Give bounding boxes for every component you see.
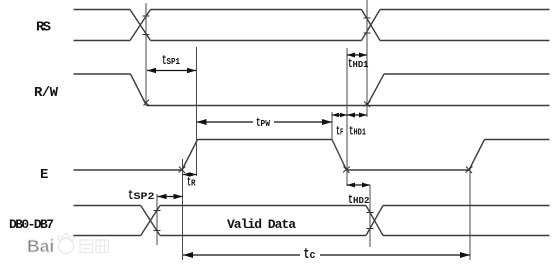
tSP1 arrow [147, 70, 196, 72]
svg-text:tHD1: tHD1 [348, 56, 369, 71]
reference line V1 at RS crossover1 / RW fall [145, 3, 147, 104]
tick DB X1 lower [154, 230, 161, 232]
reference line V6 at E fall end [346, 48, 348, 186]
RS crossover X1 [130, 10, 151, 41]
tPW arrow right part [274, 121, 332, 123]
tF arrow [332, 114, 347, 116]
svg-text:E: E [40, 167, 48, 183]
reference line V5 at E fall start [331, 112, 333, 140]
tHD2 arrow [347, 184, 370, 186]
RS bus high rail right [380, 9, 550, 11]
tick RS X2 lower [364, 32, 371, 34]
E high rail 1 [198, 139, 333, 141]
DB bus high rail mid [160, 205, 366, 207]
E falling edge [332, 140, 347, 171]
E high rail 2 [485, 139, 550, 141]
E low rail mid [347, 169, 470, 171]
svg-text:Bai: Bai [27, 236, 54, 256]
RS bus low rail mid [151, 40, 362, 42]
RS bus low rail right [380, 40, 550, 42]
R/W falling edge [131, 74, 147, 106]
R/W low rail [147, 105, 550, 107]
reference line V7 at RS crossover2 / RW rise [366, 0, 368, 117]
tick E fall end [343, 167, 350, 174]
DB bus high rail left [74, 205, 141, 207]
RS crossover X2 [362, 10, 381, 41]
svg-text:R/W: R/W [34, 85, 59, 101]
tc arrow left part [183, 254, 300, 256]
svg-text:tHD1: tHD1 [349, 124, 366, 139]
tick DB X1 upper [154, 210, 161, 212]
tPW arrow left part [197, 121, 254, 123]
tick DB X2 lower [367, 228, 374, 230]
reference line V9 at E rise2 / tc end [469, 168, 471, 260]
reference line V3 at E rise [182, 159, 184, 260]
reference line V8 at DB crossover2 [369, 185, 371, 247]
RS bus low rail left [74, 40, 131, 42]
svg-text:tSP2: tSP2 [128, 188, 155, 204]
tick RS X2 upper [364, 17, 371, 19]
reference line V4 at E high start [196, 47, 198, 176]
R/W rising edge [367, 74, 384, 106]
reference line V2 at DB crossover1 [156, 194, 158, 245]
RS bus high rail mid [151, 9, 362, 11]
tick E rise1 start [179, 167, 186, 174]
E low rail left [74, 169, 183, 171]
tHD1 mid arrow [347, 114, 367, 116]
tick RW rise start [364, 101, 371, 107]
tR arrow [183, 174, 197, 176]
svg-text:tR: tR [187, 175, 196, 190]
svg-text:DB0-DB7: DB0-DB7 [9, 217, 54, 232]
tick E rise2 start [466, 167, 473, 174]
E rising edge 1 [182, 140, 198, 171]
svg-text:tPW: tPW [256, 115, 270, 130]
tick RW fall end [143, 100, 150, 107]
tick RS X1 lower [143, 34, 150, 36]
svg-text:tF: tF [336, 124, 344, 139]
tSP2 arrow [158, 196, 183, 198]
tick RS X1 upper [143, 15, 150, 17]
DB bus low rail left [74, 235, 141, 237]
DB crossover X2 [366, 206, 383, 236]
RS bus high rail left [74, 9, 131, 11]
tick DB X2 upper [367, 212, 374, 214]
watermark Baidu logo [27, 234, 109, 256]
tHD1 top arrow [347, 54, 367, 56]
R/W high rail right [384, 73, 550, 75]
DB bus low rail mid [160, 235, 366, 237]
DB bus high rail right [383, 205, 550, 207]
DB crossover X1 [141, 206, 160, 236]
E rising edge 2 [469, 140, 485, 171]
R/W high rail left [74, 73, 131, 75]
svg-text:RS: RS [36, 20, 51, 36]
svg-text:tHD2: tHD2 [348, 192, 370, 207]
svg-text:tSP1: tSP1 [162, 53, 180, 69]
tc arrow right part [320, 254, 470, 256]
svg-text:Valid Data: Valid Data [227, 217, 296, 232]
DB bus low rail right [383, 235, 550, 237]
